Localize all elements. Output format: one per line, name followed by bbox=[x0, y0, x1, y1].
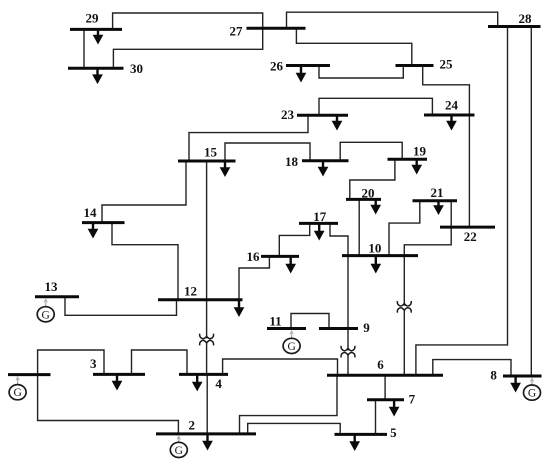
svg-text:G: G bbox=[287, 341, 295, 353]
svg-text:22: 22 bbox=[464, 229, 477, 244]
svg-text:15: 15 bbox=[204, 145, 218, 160]
svg-text:11: 11 bbox=[269, 314, 281, 329]
svg-text:13: 13 bbox=[45, 279, 59, 294]
svg-text:29: 29 bbox=[86, 11, 100, 26]
svg-text:27: 27 bbox=[230, 24, 244, 39]
svg-text:4: 4 bbox=[215, 376, 222, 391]
svg-text:26: 26 bbox=[270, 58, 284, 73]
svg-text:14: 14 bbox=[84, 205, 98, 220]
svg-text:12: 12 bbox=[184, 284, 197, 299]
svg-text:25: 25 bbox=[440, 57, 454, 72]
svg-text:23: 23 bbox=[281, 107, 295, 122]
svg-text:G: G bbox=[42, 309, 50, 321]
svg-text:21: 21 bbox=[431, 185, 444, 200]
svg-text:24: 24 bbox=[445, 97, 459, 112]
svg-text:3: 3 bbox=[90, 356, 97, 371]
svg-text:G: G bbox=[13, 387, 21, 399]
svg-text:30: 30 bbox=[130, 61, 143, 76]
svg-text:17: 17 bbox=[313, 209, 327, 224]
svg-text:20: 20 bbox=[362, 186, 375, 201]
svg-text:28: 28 bbox=[519, 11, 533, 26]
svg-text:6: 6 bbox=[377, 357, 384, 372]
svg-text:16: 16 bbox=[247, 249, 261, 264]
svg-text:5: 5 bbox=[390, 425, 397, 440]
svg-text:G: G bbox=[175, 445, 183, 457]
svg-text:10: 10 bbox=[368, 241, 381, 256]
svg-text:G: G bbox=[528, 388, 536, 400]
svg-text:19: 19 bbox=[413, 144, 427, 159]
svg-text:18: 18 bbox=[285, 154, 299, 169]
svg-text:9: 9 bbox=[363, 320, 370, 335]
svg-text:2: 2 bbox=[189, 417, 196, 432]
svg-text:8: 8 bbox=[490, 367, 497, 382]
svg-text:7: 7 bbox=[409, 392, 416, 407]
